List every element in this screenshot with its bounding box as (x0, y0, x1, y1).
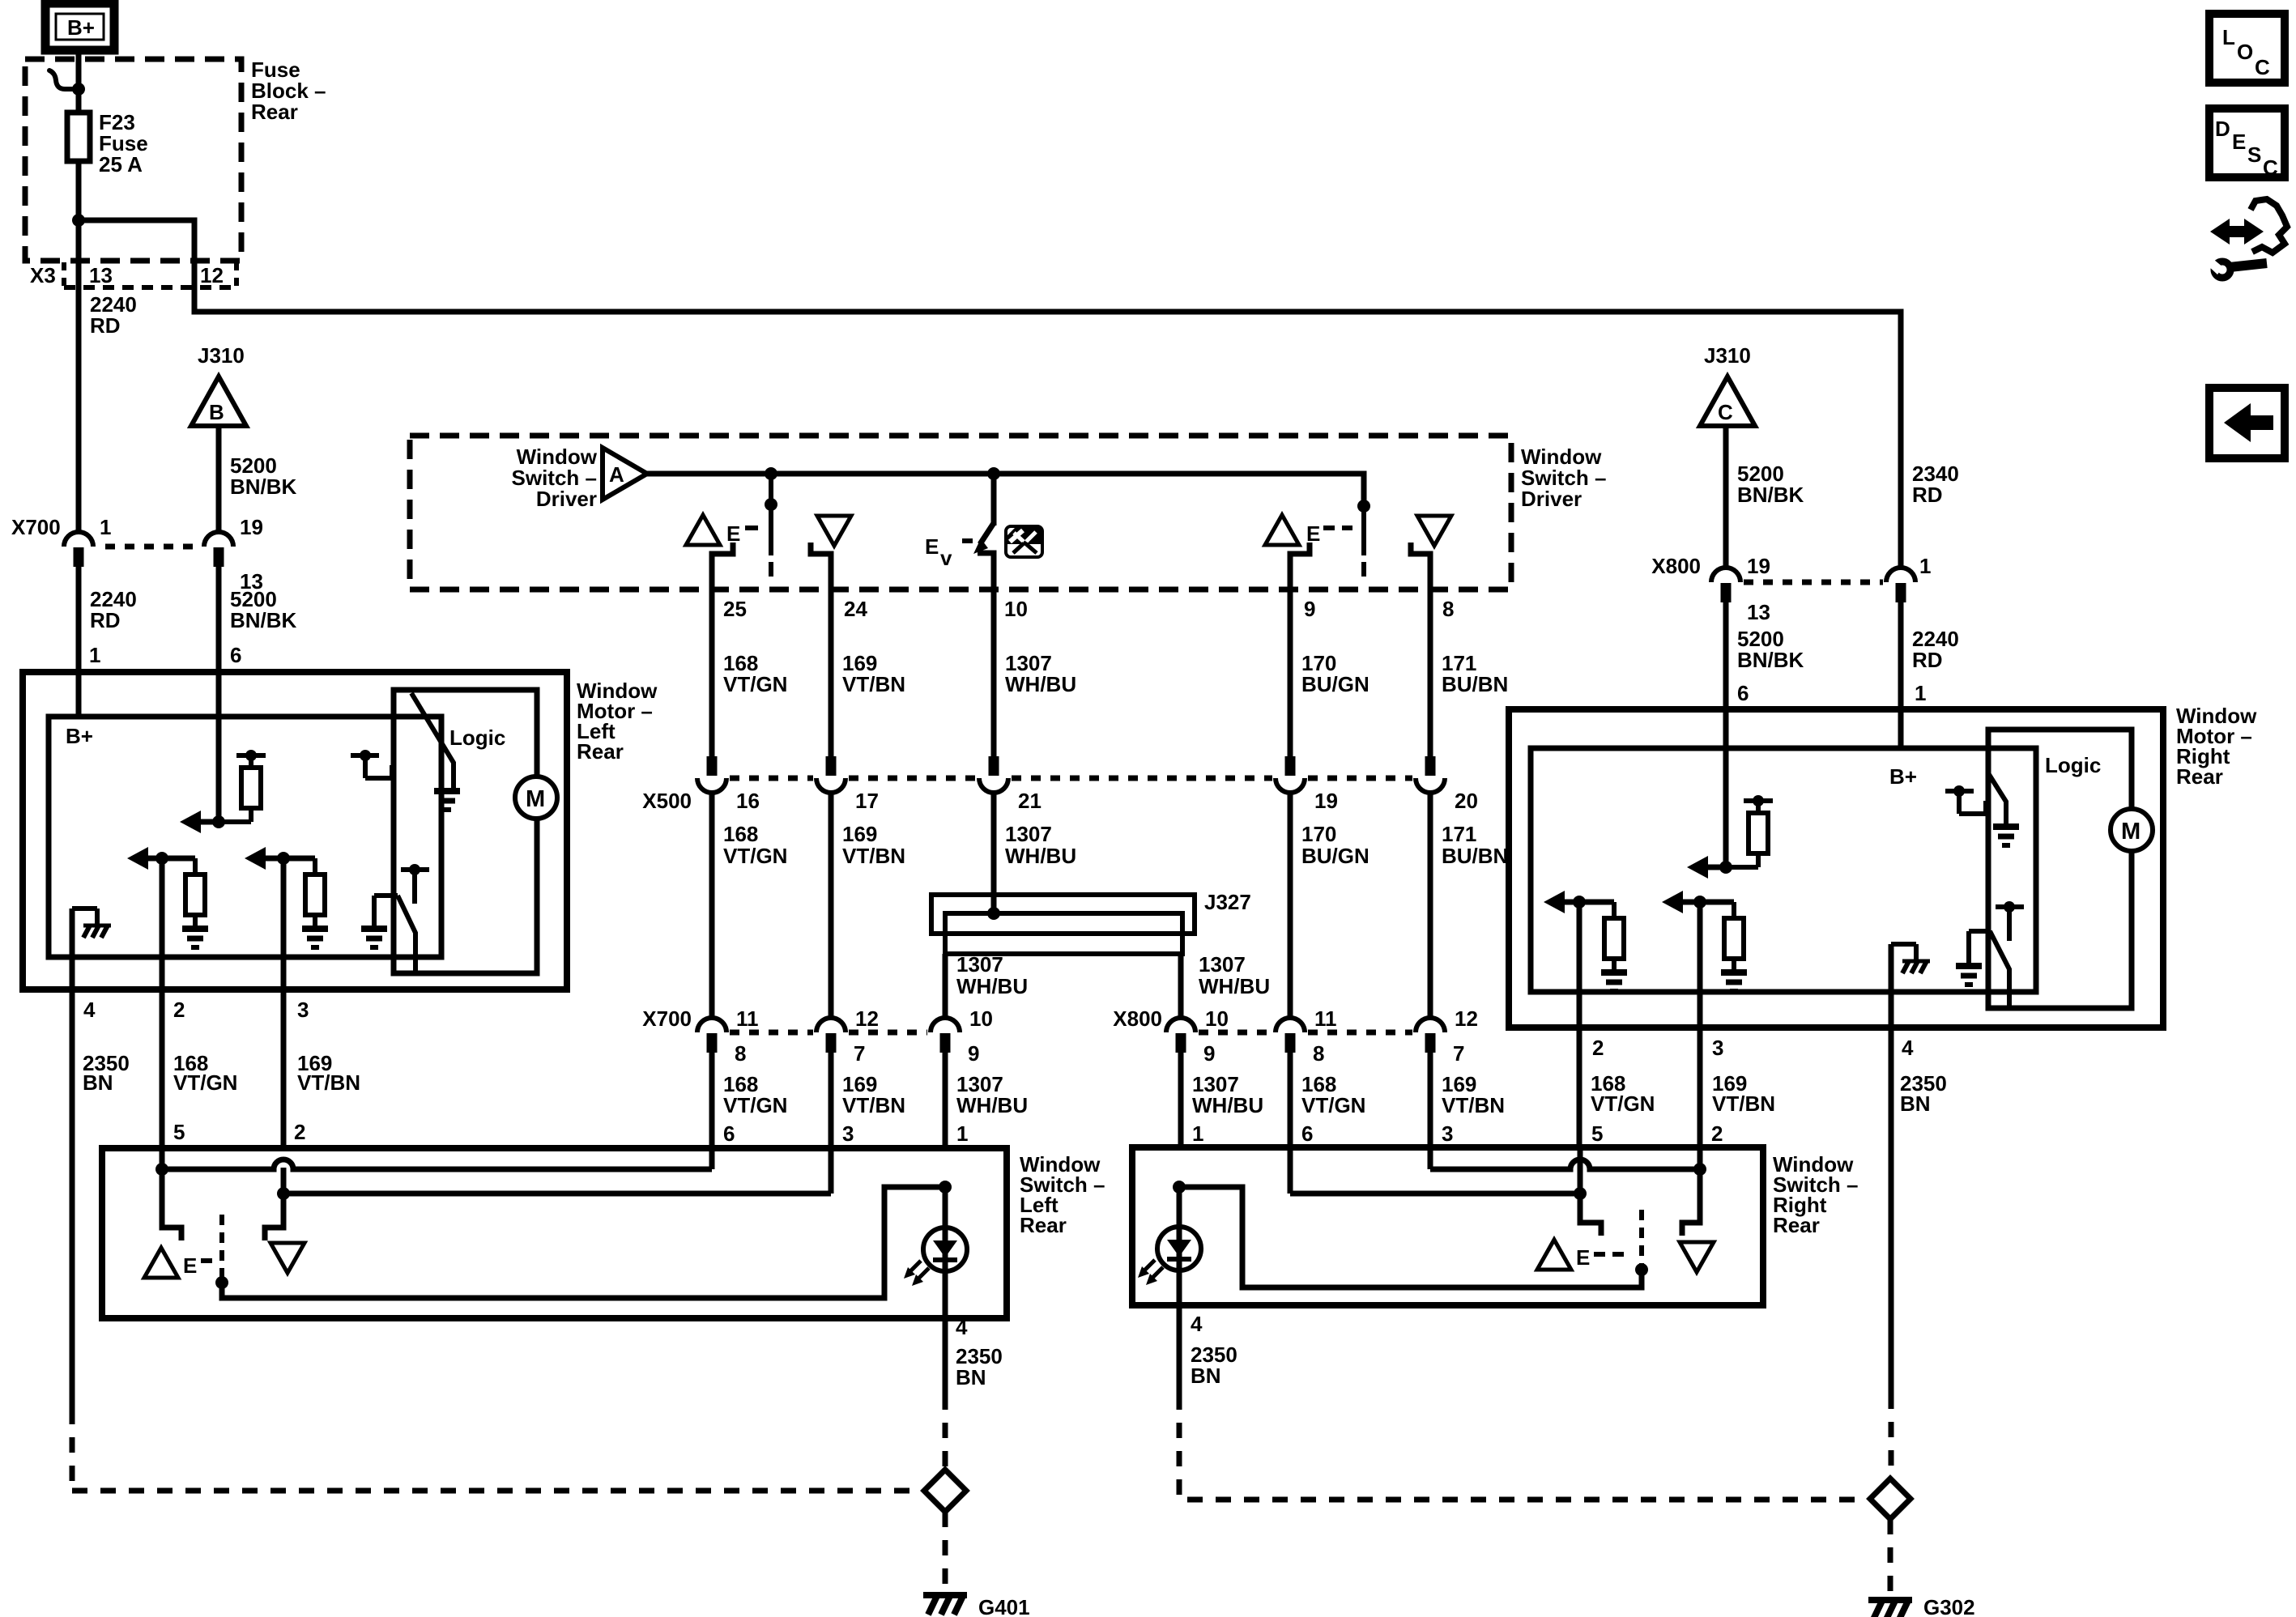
wire: X700 pin 19 to motor pin 6 (216, 567, 222, 822)
svg-text:L: L (2222, 25, 2235, 49)
labels: left switch pins 5 2 (173, 1120, 305, 1144)
svg-text:4: 4 (83, 998, 96, 1022)
up-drive arrow of right motor (1687, 856, 1724, 879)
svg-text:170: 170 (1301, 822, 1336, 846)
express window icon (1006, 526, 1042, 557)
svg-text:Rear: Rear (1020, 1213, 1067, 1237)
svg-text:12: 12 (855, 1006, 879, 1031)
wire: right motor pin 2 down to switch pin 5 (1577, 902, 1582, 1147)
svg-text:5: 5 (173, 1120, 185, 1144)
svg-text:1307: 1307 (1005, 822, 1052, 846)
window motor right rear housing (1509, 709, 2163, 1028)
svg-text:VT/BN: VT/BN (842, 672, 905, 696)
label: right switch pin 4 (1191, 1312, 1203, 1336)
svg-text:E: E (726, 521, 740, 546)
junction: tap dot (72, 83, 85, 96)
svg-text:7: 7 (854, 1041, 865, 1066)
svg-text:24: 24 (844, 597, 867, 621)
svg-text:13: 13 (1747, 600, 1770, 624)
svg-text:8: 8 (1313, 1041, 1324, 1066)
svg-text:12: 12 (200, 263, 224, 287)
svg-text:19: 19 (240, 515, 263, 539)
svg-text:J310: J310 (1704, 343, 1751, 368)
svg-text:3: 3 (1712, 1036, 1723, 1060)
right switch down contact (pin 2) (1680, 1169, 1714, 1272)
window switch right rear housing (1132, 1147, 1763, 1305)
up-drive resistor of left motor (219, 750, 266, 822)
window switch driver housing (dashed) (410, 436, 1511, 589)
svg-text:E: E (925, 534, 939, 559)
wire: driver pin 8 to X500 pin 20 (1428, 589, 1433, 756)
wire: X700 pin 1 to motor pin 1 (76, 567, 82, 717)
wire: 2240 RD via X3 pin 12 across top to right side (79, 220, 1901, 569)
logic switch upper of right motor (1945, 773, 2019, 845)
svg-text:1307: 1307 (1199, 952, 1246, 977)
svg-text:E: E (1306, 521, 1320, 546)
svg-text:Rear: Rear (1773, 1213, 1820, 1237)
svg-text:v: v (940, 546, 952, 570)
wire: X800 pin 13 to right motor pin 6 (1723, 602, 1729, 867)
logic block of right motor (1988, 730, 2132, 1008)
label: J327 (1204, 890, 1251, 914)
label: Fuse Block - Rear (251, 57, 326, 124)
wire: motor pin 4 down (2350 BN) (70, 908, 75, 1409)
svg-text:2: 2 (1711, 1121, 1723, 1146)
label: J310 (left) (198, 343, 245, 368)
pin-2 sense resistor of right motor (1544, 891, 1627, 991)
svg-text:1307: 1307 (956, 952, 1003, 977)
junction: left switch LED node (939, 1181, 952, 1194)
splice J327 (1307 WH/BU) (931, 895, 1195, 954)
svg-text:RD: RD (1912, 483, 1943, 507)
LED indicator of left switch (904, 1187, 967, 1318)
svg-text:11: 11 (1314, 1006, 1337, 1031)
svg-text:4: 4 (1902, 1036, 1914, 1060)
svg-text:171: 171 (1442, 822, 1476, 846)
svg-text:VT/BN: VT/BN (297, 1070, 360, 1095)
svg-text:Driver: Driver (1521, 487, 1582, 511)
svg-text:X800: X800 (1113, 1006, 1162, 1031)
svg-text:RD: RD (1912, 648, 1943, 672)
svg-text:10: 10 (969, 1006, 993, 1031)
svg-text:BN: BN (1191, 1364, 1221, 1388)
svg-text:VT/GN: VT/GN (173, 1070, 237, 1095)
labels: 1307 WH/BU below J327 (956, 952, 1270, 998)
svg-text:21: 21 (1018, 789, 1042, 813)
svg-text:G401: G401 (978, 1595, 1030, 1617)
svg-text:168: 168 (723, 822, 758, 846)
svg-text:3: 3 (842, 1121, 854, 1146)
svg-text:VT/GN: VT/GN (1301, 1093, 1365, 1117)
motor M right rear (2111, 809, 2153, 851)
labels: right motor pins 2 3 4 (1592, 1036, 1914, 1060)
wire: J327 right drop to X800 pin 10 (1178, 954, 1184, 1019)
left switch common return to LED node (222, 1187, 939, 1298)
svg-text:1: 1 (1915, 681, 1926, 705)
svg-text:Logic: Logic (2045, 753, 2101, 777)
label: Window Motor - Right Rear (2176, 704, 2257, 789)
label: B+ (right motor feed) (1889, 764, 1917, 789)
wires: X700/X800 rows down to rear switches (712, 1053, 1430, 1148)
label: Window Switch - Left Rear (1020, 1152, 1105, 1237)
wire: X800 pin 1 to right motor pin 1 (1898, 602, 1904, 748)
svg-text:1: 1 (956, 1121, 968, 1146)
svg-text:E: E (183, 1253, 197, 1278)
junction dots on driver bus (765, 467, 1000, 480)
fuse F23 25 A (67, 113, 90, 161)
left switch down contact (pin 2) (265, 1194, 305, 1273)
splice diamond (2350 BN right) (1870, 1479, 1910, 1519)
svg-text:D: D (2215, 117, 2230, 141)
svg-text:BN/BK: BN/BK (1737, 483, 1804, 507)
logic block of left motor (394, 690, 537, 973)
motor M left rear (515, 777, 557, 819)
driver up contact (pin 9): triangle E and step (1265, 515, 1352, 589)
junction: right motor pin 6 drive node (1719, 861, 1732, 874)
label: G302 (1923, 1595, 1975, 1617)
wire: X500 pin 21 down to splice J327 (991, 793, 997, 913)
fuse tap hook (49, 70, 77, 89)
window motor right rear module box (1531, 748, 2036, 992)
splice diamond (2350 BN left) (924, 1470, 966, 1512)
label: wire 5200 BN/BK (below X700) (230, 587, 297, 632)
svg-text:M: M (526, 786, 545, 812)
svg-text:M: M (2121, 819, 2141, 845)
left switch: pin5-pin6 link (155, 1148, 712, 1176)
svg-text:C: C (2263, 155, 2278, 180)
label: wire 2340 RD (above X800) (1912, 462, 1959, 507)
junction: 2240 RD branch dot (72, 214, 85, 227)
wire: right switch pin 4 down and right to splice diamond (1179, 1305, 1868, 1500)
pin-3 sense resistor of right motor (1662, 891, 1747, 991)
svg-text:E: E (1576, 1245, 1590, 1270)
driver up contact (pin 9): blade (1357, 500, 1370, 577)
wire: J327 left drop to X700 pin 10 (943, 954, 948, 1019)
wire: driver pin 10 to X500 pin 21 (991, 589, 997, 756)
svg-text:VT/BN: VT/BN (842, 844, 905, 868)
label: Logic (right) (2045, 753, 2101, 777)
svg-text:2: 2 (294, 1120, 305, 1144)
svg-text:3: 3 (1442, 1121, 1453, 1146)
connector X800 (junction harness to window motor right rear) (1651, 554, 1931, 624)
wire: driver pin 24 to X500 pin 17 (829, 589, 834, 756)
svg-text:BU/GN: BU/GN (1301, 844, 1370, 868)
left switch up contact (pin 5) (144, 1169, 228, 1289)
label: wire 168 VT/GN (left) (173, 1051, 237, 1095)
svg-text:BU/BN: BU/BN (1442, 844, 1508, 868)
icon: remove-install wrench (2207, 199, 2287, 278)
wire: B+ to fuse F23 (76, 50, 82, 113)
wire: J310-B to X700 pin 19 (5200 BN/BK) (216, 426, 222, 534)
svg-text:S: S (2247, 143, 2261, 167)
svg-text:7: 7 (1453, 1041, 1464, 1066)
window motor left rear housing (23, 672, 567, 989)
svg-text:VT/BN: VT/BN (1442, 1093, 1505, 1117)
svg-text:8: 8 (735, 1041, 746, 1066)
svg-text:B: B (209, 400, 224, 424)
svg-text:WH/BU: WH/BU (1005, 844, 1076, 868)
svg-text:5: 5 (1591, 1121, 1603, 1146)
window motor left rear module box (49, 717, 441, 957)
svg-text:BN/BK: BN/BK (230, 608, 297, 632)
svg-text:G302: G302 (1923, 1595, 1975, 1617)
svg-text:11: 11 (736, 1006, 759, 1031)
svg-text:X3: X3 (30, 263, 56, 287)
wire: X500 pin 16 down to X700 pin 11 (709, 793, 715, 1019)
svg-text:BU/GN: BU/GN (1301, 672, 1370, 696)
fuse block - rear dashed outline (25, 59, 241, 261)
svg-text:10: 10 (1205, 1006, 1229, 1031)
label: left switch pin 4 (956, 1315, 968, 1339)
label: wire 2350 BN (left switch) (956, 1344, 1003, 1389)
svg-text:9: 9 (1203, 1041, 1215, 1066)
right switch up contact (pin 5) (1537, 1194, 1648, 1276)
svg-text:16: 16 (736, 789, 760, 813)
up-drive resistor of right motor (1726, 795, 1773, 867)
svg-text:B+: B+ (1889, 764, 1917, 789)
wire: right motor pin 4 down (2350 BN) (1889, 944, 1894, 1476)
wire: motor pin 2 down to switch pin 5 (168 VT/GN) (160, 858, 165, 1148)
svg-text:VT/GN: VT/GN (1591, 1091, 1655, 1116)
svg-text:17: 17 (855, 789, 879, 813)
left switch: pin2-pin3 link (277, 1147, 831, 1200)
junction: motor pin 6 drive node (212, 815, 225, 828)
splice J310 triangle B (191, 377, 246, 426)
pin-3 sense resistor of left motor (245, 847, 328, 947)
labels: wires 168 169 1307 170 171 above X500 (723, 651, 1508, 696)
svg-text:BN: BN (1900, 1091, 1931, 1116)
svg-text:BN/BK: BN/BK (230, 474, 297, 499)
wire: J310-C to X800 pin 19 (5200 BN/BK) (1723, 426, 1729, 569)
svg-text:WH/BU: WH/BU (1005, 672, 1076, 696)
label: Logic (449, 726, 505, 750)
right switch: pin3-pin2 link (1430, 1147, 1706, 1176)
svg-text:2: 2 (173, 998, 185, 1022)
label: F23 Fuse 25 A (99, 110, 148, 177)
svg-text:WH/BU: WH/BU (956, 974, 1028, 998)
window switch left rear housing (102, 1148, 1007, 1318)
label: Window Switch - Right Rear (1773, 1152, 1858, 1237)
svg-text:WH/BU: WH/BU (956, 1093, 1028, 1117)
svg-text:RD: RD (90, 608, 121, 632)
label: wire 169 VT/BN (right) (1712, 1071, 1775, 1116)
splice J310 triangle C (1700, 377, 1755, 426)
svg-text:Rear: Rear (2176, 764, 2223, 789)
svg-text:C: C (1718, 400, 1733, 424)
driver down contact (pin 24) (811, 516, 851, 589)
logic switch lower of right motor (1956, 901, 2024, 1008)
wire: right motor pin 3 down to switch pin 2 (1698, 902, 1703, 1147)
pin-2 sense resistor of left motor (127, 847, 208, 947)
svg-text:25 A: 25 A (99, 152, 143, 177)
bus wire of driver switch (647, 474, 1364, 506)
svg-text:VT/BN: VT/BN (1712, 1091, 1775, 1116)
labels: left motor pins 4 2 3 (83, 998, 309, 1022)
connector X3 of fuse block (30, 262, 236, 287)
label: wire 5200 BN/BK (above X700) (230, 453, 297, 499)
svg-text:Rear: Rear (577, 739, 624, 764)
label: J310 (right) (1704, 343, 1751, 368)
svg-text:4: 4 (956, 1315, 968, 1339)
chassis ground of right motor (pin 4) (1891, 944, 1930, 973)
svg-text:X700: X700 (642, 1006, 692, 1031)
label: wire 2240 RD (below X800) (1912, 627, 1959, 672)
right switch: pin6-pin5 link (1290, 1147, 1587, 1200)
icon: back arrow box (2209, 388, 2285, 458)
svg-text:6: 6 (1301, 1121, 1313, 1146)
svg-text:B+: B+ (66, 724, 93, 748)
driver up contact (pin 25): blade (765, 474, 777, 577)
labels: wires below X500 (723, 822, 1508, 868)
svg-text:BU/BN: BU/BN (1442, 672, 1508, 696)
svg-text:RD: RD (90, 313, 121, 338)
right switch common return to LED node (1184, 1187, 1642, 1287)
logic switch lower of left motor (361, 864, 429, 973)
label: wire 2350 BN (left motor) (83, 1051, 130, 1095)
label: wire 2240 RD (below X700) (90, 587, 137, 632)
labels: rear switch top pin numbers (723, 1121, 1723, 1146)
svg-text:12: 12 (1455, 1006, 1478, 1031)
label: B+ (motor feed) (66, 724, 93, 748)
svg-text:4: 4 (1191, 1312, 1203, 1336)
wire: X500 pin 20 down to X800 pin 12 (1428, 793, 1433, 1019)
ground G302 (1868, 1600, 1912, 1617)
label: wire 2350 BN (right switch) (1191, 1343, 1237, 1388)
svg-text:1: 1 (1192, 1121, 1203, 1146)
svg-text:X500: X500 (642, 789, 692, 813)
label: Window Motor - Left Rear (577, 679, 658, 764)
up-drive arrow of left motor (180, 811, 217, 833)
svg-text:9: 9 (1304, 597, 1315, 621)
label: wire 5200 BN/BK (below X800) (1737, 627, 1804, 672)
svg-text:2: 2 (1592, 1036, 1604, 1060)
wire: fuse to X700 pin 1 (circuit 2240) (76, 161, 82, 534)
LED indicator of right switch (1138, 1187, 1201, 1305)
svg-text:6: 6 (230, 643, 241, 667)
svg-text:9: 9 (968, 1041, 979, 1066)
svg-text:E: E (2232, 130, 2246, 154)
svg-text:A: A (609, 462, 624, 487)
svg-text:6: 6 (723, 1121, 735, 1146)
svg-text:J327: J327 (1204, 890, 1251, 914)
svg-text:Logic: Logic (449, 726, 505, 750)
svg-text:19: 19 (1747, 554, 1770, 578)
wire: X500 pin 19 down to X800 pin 11 (1288, 793, 1293, 1019)
wire: left motor pin 4 dashed to splice diamond (72, 1409, 922, 1491)
svg-text:VT/GN: VT/GN (723, 672, 787, 696)
svg-text:25: 25 (723, 597, 747, 621)
wire: motor pin 3 down to switch pin 2 (169 VT/BN) (281, 858, 287, 1148)
svg-text:10: 10 (1004, 597, 1028, 621)
wire: X500 pin 17 down to X700 pin 12 (829, 793, 834, 1019)
label: motor pin 1 (89, 643, 100, 667)
label: wire 2350 BN (right motor) (1900, 1071, 1947, 1116)
svg-text:1: 1 (89, 643, 100, 667)
svg-text:X800: X800 (1651, 554, 1701, 578)
junction: right switch LED node (1173, 1181, 1186, 1194)
connector X500 (driver door harness) (642, 756, 1478, 813)
label: motor pin 6 (230, 643, 241, 667)
svg-text:C: C (2255, 55, 2270, 79)
svg-text:BN/BK: BN/BK (1737, 648, 1804, 672)
wire: driver pin 25 to X500 pin 16 (709, 589, 715, 756)
connector arrow A (window switch driver feed) (603, 448, 647, 500)
svg-text:VT/GN: VT/GN (723, 1093, 787, 1117)
connector X700 (to window switch left rear) (642, 1006, 993, 1066)
svg-text:1: 1 (100, 515, 111, 539)
svg-text:BN: BN (956, 1365, 986, 1389)
svg-text:6: 6 (1737, 681, 1749, 705)
svg-text:B+: B+ (67, 15, 95, 40)
power feed B+ box (45, 3, 114, 50)
label: wire 169 VT/BN (left) (297, 1051, 360, 1095)
label: Window Switch - Driver (left) (512, 445, 598, 511)
label: wire 2240 RD (fuse output) (90, 292, 137, 338)
svg-text:BN: BN (83, 1070, 113, 1095)
labels: driver switch pins 25 24 10 9 8 (723, 597, 1454, 621)
icon: DESC box (2209, 109, 2285, 180)
labels: wires between X700/X800 and switches (723, 1072, 1505, 1117)
logic switch upper of left motor (351, 693, 460, 810)
svg-text:20: 20 (1455, 789, 1478, 813)
svg-text:WH/BU: WH/BU (1199, 974, 1270, 998)
label: Window Switch - Driver (right) (1521, 445, 1606, 511)
svg-text:WH/BU: WH/BU (1192, 1093, 1263, 1117)
label: wire 168 VT/GN (right) (1591, 1071, 1655, 1116)
driver down contact (pin 8) (1411, 516, 1451, 589)
icon: LOC box (2209, 14, 2285, 83)
svg-text:13: 13 (89, 263, 113, 287)
wire: right diamond to G302 (1888, 1519, 1893, 1594)
svg-text:Driver: Driver (536, 487, 597, 511)
svg-text:J310: J310 (198, 343, 245, 368)
label: wire 5200 BN/BK (above X800) (1737, 462, 1804, 507)
svg-text:3: 3 (297, 998, 309, 1022)
svg-text:Rear: Rear (251, 100, 298, 124)
svg-text:O: O (2237, 40, 2253, 64)
svg-text:19: 19 (1314, 789, 1338, 813)
driver express-down contact (pin 10) (925, 474, 994, 589)
wire: driver pin 9 to X500 pin 19 (1288, 589, 1293, 756)
wire: left switch pin 4 down (2350 BN) (943, 1318, 948, 1467)
svg-text:169: 169 (842, 822, 877, 846)
connector X800 (to window switch right rear) (1113, 1006, 1478, 1066)
ground G401 (923, 1595, 967, 1615)
svg-text:VT/GN: VT/GN (723, 844, 787, 868)
connector X700 (fuse/junction harness to window motor left rear) (11, 515, 263, 594)
svg-text:X700: X700 (11, 515, 61, 539)
svg-text:8: 8 (1442, 597, 1454, 621)
driver up contact (pin 25): triangle E and step (686, 515, 758, 589)
label: G401 (978, 1595, 1030, 1617)
chassis ground of left motor (pin 4) (72, 908, 111, 938)
svg-text:VT/BN: VT/BN (842, 1093, 905, 1117)
labels: right motor pins 6 1 (1737, 681, 1926, 705)
svg-text:1: 1 (1919, 554, 1931, 578)
wire: diamond to G401 (943, 1512, 948, 1589)
